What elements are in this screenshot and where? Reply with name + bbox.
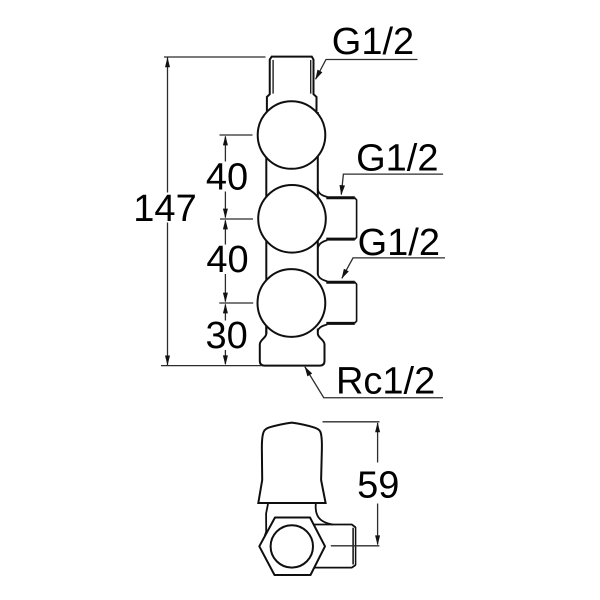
body right wall (upper) xyxy=(317,112,319,275)
extension line circle2 center xyxy=(220,218,253,220)
svg-text:147: 147 xyxy=(133,188,196,230)
extension line top (147) xyxy=(164,56,266,58)
svg-text:Rc1/2: Rc1/2 xyxy=(336,360,435,402)
svg-text:30: 30 xyxy=(206,315,248,357)
dimension 147 line xyxy=(167,58,169,366)
extension line circle1 center xyxy=(220,134,253,136)
dimension 30 line xyxy=(224,305,226,365)
side port 1 (G1/2) xyxy=(318,190,327,197)
side view: hex nut xyxy=(259,518,325,576)
dimension 59 line xyxy=(377,423,379,545)
dimension 40 (upper) line xyxy=(224,137,226,218)
side view: neck right outline into outlet stub top xyxy=(316,504,356,528)
leader G1/2 top xyxy=(316,60,418,80)
side view: outlet stub threaded end xyxy=(353,527,356,565)
extension line bottom (147/30) xyxy=(161,365,262,367)
threaded top stub G1/2 xyxy=(267,57,317,125)
svg-text:G1/2: G1/2 xyxy=(358,222,440,264)
sphere body 2 xyxy=(258,185,326,253)
side view: neck left outline xyxy=(265,504,268,537)
side port 2 (G1/2) xyxy=(318,274,327,281)
extension line top (59) xyxy=(323,421,380,423)
svg-text:59: 59 xyxy=(357,465,399,507)
side view: cap/handle xyxy=(258,423,325,503)
sphere body 1 xyxy=(258,101,326,169)
leader G1/2 middle xyxy=(341,174,443,195)
body left wall xyxy=(265,112,267,334)
svg-text:40: 40 xyxy=(206,239,248,281)
svg-text:G1/2: G1/2 xyxy=(332,21,414,63)
leader Rc1/2 xyxy=(305,367,443,398)
dimension 40 (lower) line xyxy=(224,221,226,302)
sphere body 3 xyxy=(258,269,326,337)
svg-text:G1/2: G1/2 xyxy=(356,138,438,180)
extension line circle3 center xyxy=(219,302,253,304)
bottom block with Rc1/2 socket xyxy=(260,325,325,366)
side view: bore circle xyxy=(271,525,313,567)
side view: outlet stub top edge xyxy=(314,524,333,526)
extension line bottom (59) / outlet axis xyxy=(331,545,380,547)
leader G1/2 lower xyxy=(342,258,445,278)
stub thread inner lines xyxy=(273,60,311,94)
svg-text:40: 40 xyxy=(206,157,248,199)
